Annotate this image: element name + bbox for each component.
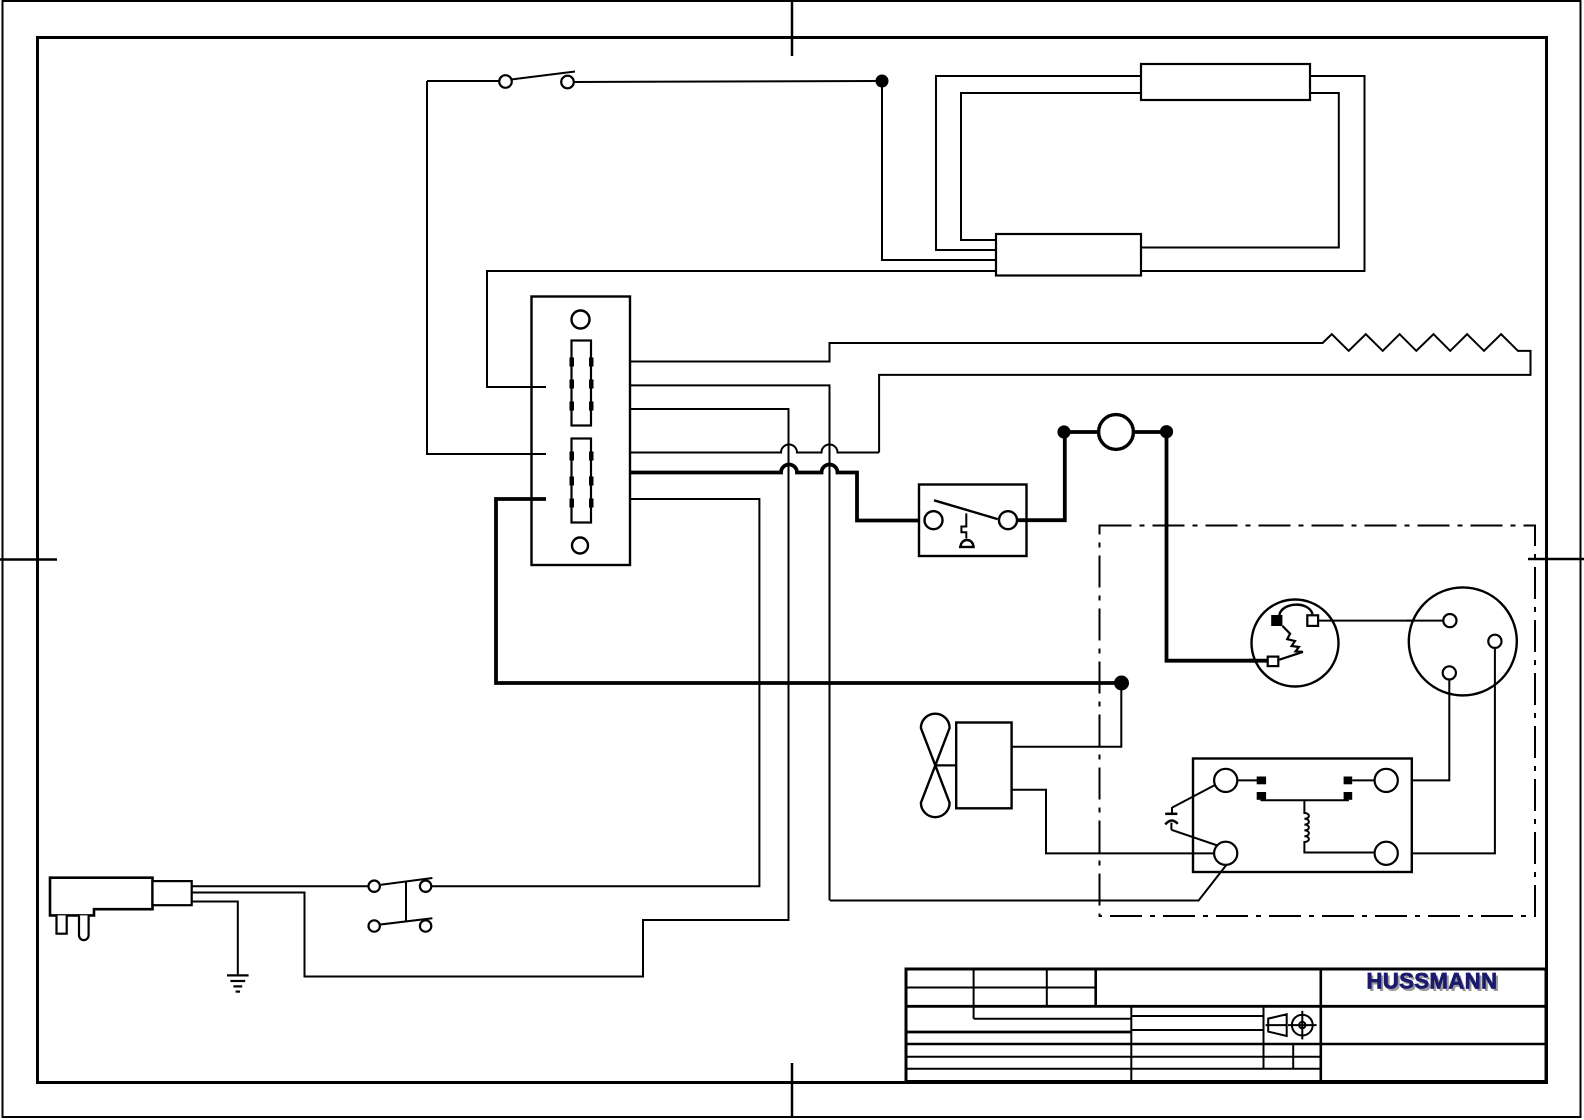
heater H2 (defrost heater bottom)	[996, 234, 1141, 276]
dashed condensing-unit boundary box	[1100, 526, 1536, 917]
line switch S2 contact top-right	[420, 881, 431, 892]
wire: compressor bottom pin to overload board upper-right	[1398, 680, 1449, 781]
title block mini row left	[1131, 1015, 1263, 1017]
klixon diagonal to lower-left circle	[1171, 830, 1217, 846]
power plug prong round	[79, 915, 89, 940]
terminal board circle lower-left	[1214, 842, 1237, 865]
title block row line	[906, 1056, 1321, 1058]
wire: thick feed box to pressure switch with hops	[630, 465, 925, 521]
wire: neutral from box right down-around to plug	[192, 409, 789, 977]
power plug P1 body	[50, 878, 153, 916]
title block logo cell divider	[1320, 969, 1323, 1082]
thermostat bulb T1	[1099, 415, 1134, 450]
line switch S2 contact top-left	[369, 881, 380, 892]
switch S1 right contact	[561, 76, 574, 89]
klixon plate straight	[1165, 813, 1177, 816]
thermostat control box mounting hole bottom	[572, 538, 588, 554]
thermostat control box mounting hole top	[572, 311, 590, 329]
compressor pin right	[1488, 635, 1501, 648]
compressor pin bottom	[1443, 666, 1456, 679]
klixon stem lower	[1170, 823, 1172, 830]
wire stub: heater feed into box	[532, 386, 547, 388]
wire: heater return with crossover hops to box	[630, 445, 879, 453]
terminal board circle upper-right	[1375, 769, 1398, 792]
contact pad right upper	[1344, 777, 1353, 785]
terminal nubs on lower slot	[570, 452, 594, 508]
wire: defrost loop inner right leg	[1140, 93, 1339, 248]
pressure switch diaphragm base	[959, 546, 975, 548]
terminal nubs on upper slot	[570, 358, 594, 411]
wire: defrost loop outer left leg	[936, 76, 1142, 250]
klixon plate curved	[1165, 820, 1177, 824]
line switch S2 link bar	[405, 882, 407, 922]
node B junction dot	[1114, 676, 1129, 691]
wire stub: fan lead into lower-left terminal	[1193, 852, 1214, 854]
power plug prong flat	[57, 915, 67, 933]
title block top band divider v3	[1094, 969, 1097, 1007]
top center tick	[791, 0, 794, 56]
start relay coil zigzag	[1279, 626, 1303, 660]
line switch S2 bottom blade	[381, 918, 433, 924]
start relay contact arc	[1279, 605, 1312, 616]
title block symbol cell divider	[1263, 1006, 1265, 1068]
pressure switch right contact	[999, 511, 1017, 529]
wire: junction B down to fan motor	[1012, 683, 1121, 747]
line switch S2 contact bottom-left	[369, 920, 380, 931]
wire: thick dot to thermostat bulb	[1064, 430, 1099, 434]
fan shaft link	[935, 764, 956, 766]
title block mini row left2	[1131, 1029, 1263, 1031]
bottom center tick	[791, 1063, 794, 1118]
thermostat control slot lower	[572, 439, 592, 523]
title block band bottom	[906, 1005, 1546, 1008]
thermostat control box TC1	[532, 297, 631, 566]
wire: upper-left circle to contact	[1237, 779, 1257, 781]
start relay SR1 body	[1252, 600, 1339, 687]
wire: hot feed box to line switch S2	[432, 499, 760, 886]
line switch S2 contact bottom-right	[420, 920, 431, 931]
switch S1 left contact	[499, 75, 512, 88]
ground symbol	[227, 975, 249, 991]
overload / terminal board TB1	[1193, 759, 1412, 873]
wire: diagonal from lower-left circle to neutral run	[830, 864, 1227, 900]
terminal board circle lower-right	[1375, 842, 1398, 865]
node: thermostat left junction dot	[1057, 425, 1070, 438]
pressure switch actuator stem	[961, 513, 966, 538]
wire: box to heater element resistor and back	[630, 334, 1531, 452]
title block	[906, 969, 1546, 1082]
wire: riser from S1 down to thermostat box left terminal	[427, 81, 546, 454]
wire stub: switch feed into box	[532, 453, 547, 455]
heater H1 (defrost heater top)	[1141, 64, 1310, 100]
line switch S2 top blade	[381, 878, 432, 885]
third-angle projection target symbol	[1288, 1011, 1317, 1040]
fan blade upper	[921, 714, 950, 766]
wire: thick pressure switch to thermostat node	[1017, 432, 1065, 520]
title block full row line	[906, 1043, 1546, 1045]
wire stub: thick feed into relay terminal	[1249, 659, 1268, 663]
title block small row line	[974, 1006, 1132, 1018]
title block top band divider v2	[1046, 969, 1048, 1007]
wire: switch S1 to junction A	[574, 81, 876, 82]
right center tick	[1528, 558, 1584, 561]
node: thermostat right junction dot	[1160, 425, 1173, 438]
klixon diagonal from upper-left circle	[1172, 785, 1215, 808]
contact pad left upper	[1257, 777, 1266, 785]
contact pad right lower	[1344, 792, 1353, 800]
wire: long feed from thermostat box to heater H2	[487, 271, 996, 387]
wire: thick run box left side down and across to junction B	[496, 499, 1118, 683]
klixon stem upper	[1171, 807, 1173, 813]
compressor motor M1 body	[1409, 587, 1517, 695]
pressure switch diaphragm dome	[961, 540, 974, 546]
third-angle projection frustum symbol	[1266, 1014, 1287, 1036]
node A junction dot	[876, 75, 889, 88]
contact pad left lower	[1257, 792, 1266, 800]
compressor pin left	[1443, 614, 1456, 627]
terminal board circle upper-left	[1214, 769, 1237, 792]
wire: thick thermostat bulb to right dot	[1134, 430, 1168, 434]
fan motor FM1 box	[956, 723, 1011, 809]
wire: defrost loop outer right leg	[1140, 76, 1365, 271]
wire: compressor right pin to overload board lower-right	[1398, 648, 1495, 853]
title block rows divider column	[1130, 1006, 1132, 1081]
switch S1 blade	[511, 72, 575, 80]
wire stub: relay lead into compressor left pin	[1407, 620, 1443, 622]
svg-text:HUSSMANN: HUSSMANN	[1366, 969, 1497, 994]
wire: relay to compressor motor pin	[1318, 620, 1443, 622]
start relay terminal right	[1307, 615, 1318, 626]
pressure switch blade	[934, 500, 998, 519]
fan blade lower	[921, 765, 950, 817]
power plug cord grip	[153, 881, 192, 905]
title block small cell divider	[1292, 1044, 1294, 1069]
wire: defrost loop inner left leg	[961, 93, 1142, 240]
title block top band row split	[906, 987, 1096, 989]
wire: top feed from vertical riser to switch S1	[427, 80, 499, 82]
wire: plug ground lead	[192, 902, 238, 975]
wire: lower contacts link with coil tap	[1261, 799, 1348, 802]
wire: upper-right contact to circle	[1352, 779, 1375, 781]
start relay terminal filled	[1271, 615, 1282, 626]
wire: plug hot lead to line switch	[192, 885, 370, 887]
thermostat control slot upper	[572, 341, 592, 426]
title block outline	[906, 969, 1546, 1082]
wire: thick feed down to start relay	[1167, 432, 1268, 661]
title block top band divider v1	[973, 969, 975, 1007]
wire: box neutral branch riser	[630, 385, 830, 900]
start relay terminal lower-left	[1268, 657, 1279, 667]
left center tick	[0, 558, 57, 561]
title block thick row line	[906, 1031, 1131, 1034]
pressure switch PS1 box	[919, 485, 1027, 557]
wire: junction A down to defrost heater H2	[882, 81, 996, 260]
wire: fan motor lower lead to overload board	[1012, 790, 1214, 854]
title block row line	[906, 1068, 1321, 1070]
pressure switch left contact	[925, 511, 943, 529]
overload coil	[1304, 800, 1374, 852]
